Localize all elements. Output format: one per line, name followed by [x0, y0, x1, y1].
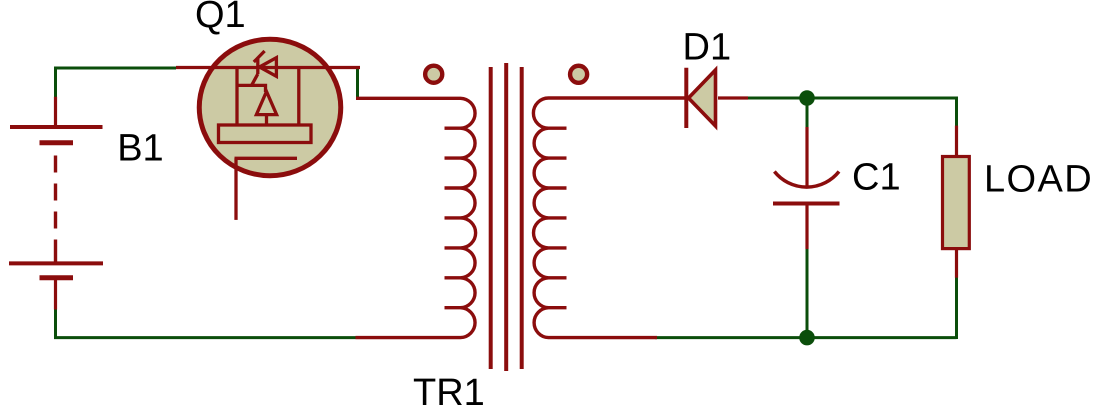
Q1 zener top tick [254, 51, 265, 62]
wire secondary bottom to load corner [655, 336, 957, 339]
Q1 channel plate rectangle [219, 125, 312, 143]
Q1 gate lead [234, 158, 237, 220]
node junction bottom [799, 330, 815, 346]
wire capacitor branch [806, 97, 809, 340]
TR1 primary cusp stubs [445, 128, 461, 308]
wire jog Q1 drain to TR1 primary [356, 67, 359, 99]
C1 bottom pin [805, 206, 808, 250]
TR1 secondary polarity dot [570, 66, 587, 83]
TR1 primary winding [356, 98, 476, 337]
Q1 inner horizontal with stub [237, 85, 266, 92]
Q1 zener bottom tick [252, 74, 258, 85]
C1 curved plate [774, 172, 839, 188]
diode D1 [686, 68, 748, 128]
D1 anode pin [718, 96, 748, 99]
svg-text:B1: B1 [117, 128, 163, 170]
Q1 body circle [199, 39, 341, 176]
wire D1 cathode side to load corner [746, 97, 957, 100]
wire top-left from battery to Q1 [56, 68, 177, 127]
svg-text:D1: D1 [683, 27, 732, 69]
battery B1 [9, 97, 103, 310]
svg-text:C1: C1 [852, 157, 901, 199]
C1 top pin [805, 127, 808, 189]
LOAD top pin [955, 126, 958, 157]
TR1 core lines [491, 63, 522, 371]
resistor LOAD [943, 126, 970, 278]
D1 cathode bar [684, 68, 688, 128]
transistor Q1 [176, 39, 360, 220]
Q1 left vertical [235, 68, 238, 126]
TR1 secondary winding [533, 98, 686, 338]
Q1 drain-source top line [176, 66, 360, 69]
D1 triangle [689, 70, 716, 126]
svg-text:LOAD: LOAD [984, 159, 1093, 201]
LOAD bottom pin [955, 249, 958, 278]
Q1 right vertical [297, 68, 300, 126]
C1 straight plate [773, 202, 840, 206]
Q1 zener triangle [260, 58, 277, 77]
capacitor C1 [773, 127, 840, 249]
svg-text:Q1: Q1 [195, 0, 246, 36]
TR1 primary polarity dot [425, 66, 442, 83]
TR1 secondary cusp stubs [549, 128, 567, 308]
Q1 body diode triangle [256, 92, 276, 115]
svg-text:TR1: TR1 [413, 372, 485, 414]
LOAD body [943, 157, 970, 249]
node junction top [799, 90, 815, 106]
Q1 zener bar [256, 58, 259, 74]
Q1 body diode stub [265, 115, 268, 125]
transformer TR1 [356, 63, 687, 371]
wire load branch [955, 97, 958, 340]
wire bottom from battery to transformer [56, 296, 356, 338]
Q1 gate bar [235, 157, 298, 160]
